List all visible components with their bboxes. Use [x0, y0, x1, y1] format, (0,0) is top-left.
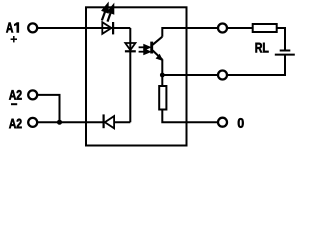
wire Q1 emitter down to node	[161, 59, 163, 75]
label + (A1 polarity)	[11, 36, 17, 42]
wire A2 to diode D3	[38, 121, 104, 123]
label A2 (upper)	[9, 90, 22, 100]
label minus (A2 polarity)	[11, 103, 17, 105]
opto-coupler LED D2	[125, 43, 136, 51]
terminal A1	[28, 23, 37, 32]
opto light arrows to phototransistor	[139, 45, 150, 54]
resistor R1 (output pull-down)	[159, 86, 166, 110]
terminal output 0	[218, 118, 227, 127]
terminal output top	[218, 24, 227, 33]
phototransistor Q1	[152, 37, 163, 61]
wire node to resistor R1	[161, 75, 163, 87]
LED D1 emission arrows	[102, 5, 113, 22]
wire A1 to opto-LED column	[38, 27, 131, 29]
diode D3 (reverse protection)	[104, 114, 115, 128]
wire RL to battery	[277, 28, 285, 51]
wire node to middle output terminal	[162, 74, 217, 76]
wire R1 to bottom rail	[162, 109, 217, 122]
resistor RL (load)	[253, 24, 277, 32]
label RL	[256, 43, 269, 53]
label 0	[238, 118, 244, 128]
battery BT1	[275, 51, 295, 55]
label A2 (lower)	[9, 119, 22, 129]
wire output top terminal to load resistor RL	[228, 27, 253, 29]
wire Q1 collector to output terminal	[162, 28, 217, 37]
wire battery to middle output terminal	[228, 55, 285, 75]
junction node (emitter/resistor/output)	[160, 73, 165, 78]
terminal A2	[28, 118, 37, 127]
label A1	[6, 23, 19, 33]
junction node (A2 wires)	[57, 120, 62, 125]
wire opto-LED column down to bottom rail	[129, 28, 131, 122]
terminal A2 minus	[28, 90, 37, 99]
wire A2 upper to junction	[37, 95, 59, 122]
wire D3 to opto-LED column	[114, 121, 130, 123]
LED D1 (indicator)	[102, 22, 113, 34]
device outline box	[86, 7, 187, 145]
terminal output middle	[218, 71, 227, 80]
